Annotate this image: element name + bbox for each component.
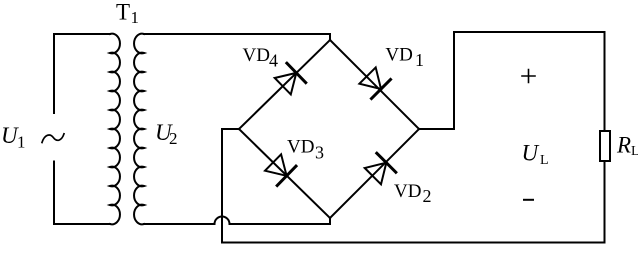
wire: secondary bottom to bridge bottom node (hop over crossing wire)	[144, 217, 330, 224]
svg-text:1: 1	[131, 8, 140, 27]
svg-text:2: 2	[423, 186, 432, 206]
svg-text:T: T	[116, 0, 130, 25]
svg-text:1: 1	[17, 133, 26, 152]
wire: primary loop bottom (source bottom to T1 primary)	[54, 162, 110, 225]
svg-text:VD: VD	[243, 45, 270, 66]
svg-text:VD: VD	[394, 181, 421, 202]
wire: bridge right node up and over to load top	[419, 32, 605, 131]
svg-text:1: 1	[415, 50, 424, 70]
svg-text:2: 2	[169, 129, 178, 148]
minus sign (load polarity -)	[524, 199, 533, 201]
wire: bridge side top-right (VD1 branch)	[330, 40, 419, 129]
wire: bridge side left-top (VD4 branch)	[239, 40, 330, 129]
svg-text:R: R	[616, 133, 631, 158]
svg-text:U: U	[522, 141, 540, 166]
svg-text:L: L	[631, 144, 638, 159]
diode VD4	[275, 63, 306, 94]
svg-text:3: 3	[315, 143, 324, 163]
resistor RL body	[600, 131, 610, 161]
wire: bridge left node to bottom rail (crosses under hop)	[222, 129, 239, 243]
svg-text:4: 4	[269, 51, 278, 71]
diode VD1	[359, 67, 390, 98]
wire: secondary top to bridge top node	[144, 34, 330, 40]
transformer T1 primary winding	[110, 34, 120, 225]
plus sign (load polarity +)	[522, 70, 535, 83]
wire: load bottom rail	[222, 161, 605, 243]
AC source U1 (tilde in wire gap)	[42, 134, 64, 143]
diode VD3	[265, 154, 296, 185]
wire: primary loop top (source top to T1 primary)	[54, 34, 110, 113]
svg-text:VD: VD	[287, 137, 314, 158]
wire: bridge side left-bottom (VD3 branch)	[239, 129, 330, 218]
diode VD2	[365, 153, 396, 184]
wire: bridge side bottom-right (VD2 branch)	[330, 129, 419, 218]
svg-text:L: L	[540, 153, 549, 168]
transformer T1 secondary winding	[134, 34, 144, 225]
svg-text:VD: VD	[385, 44, 412, 65]
